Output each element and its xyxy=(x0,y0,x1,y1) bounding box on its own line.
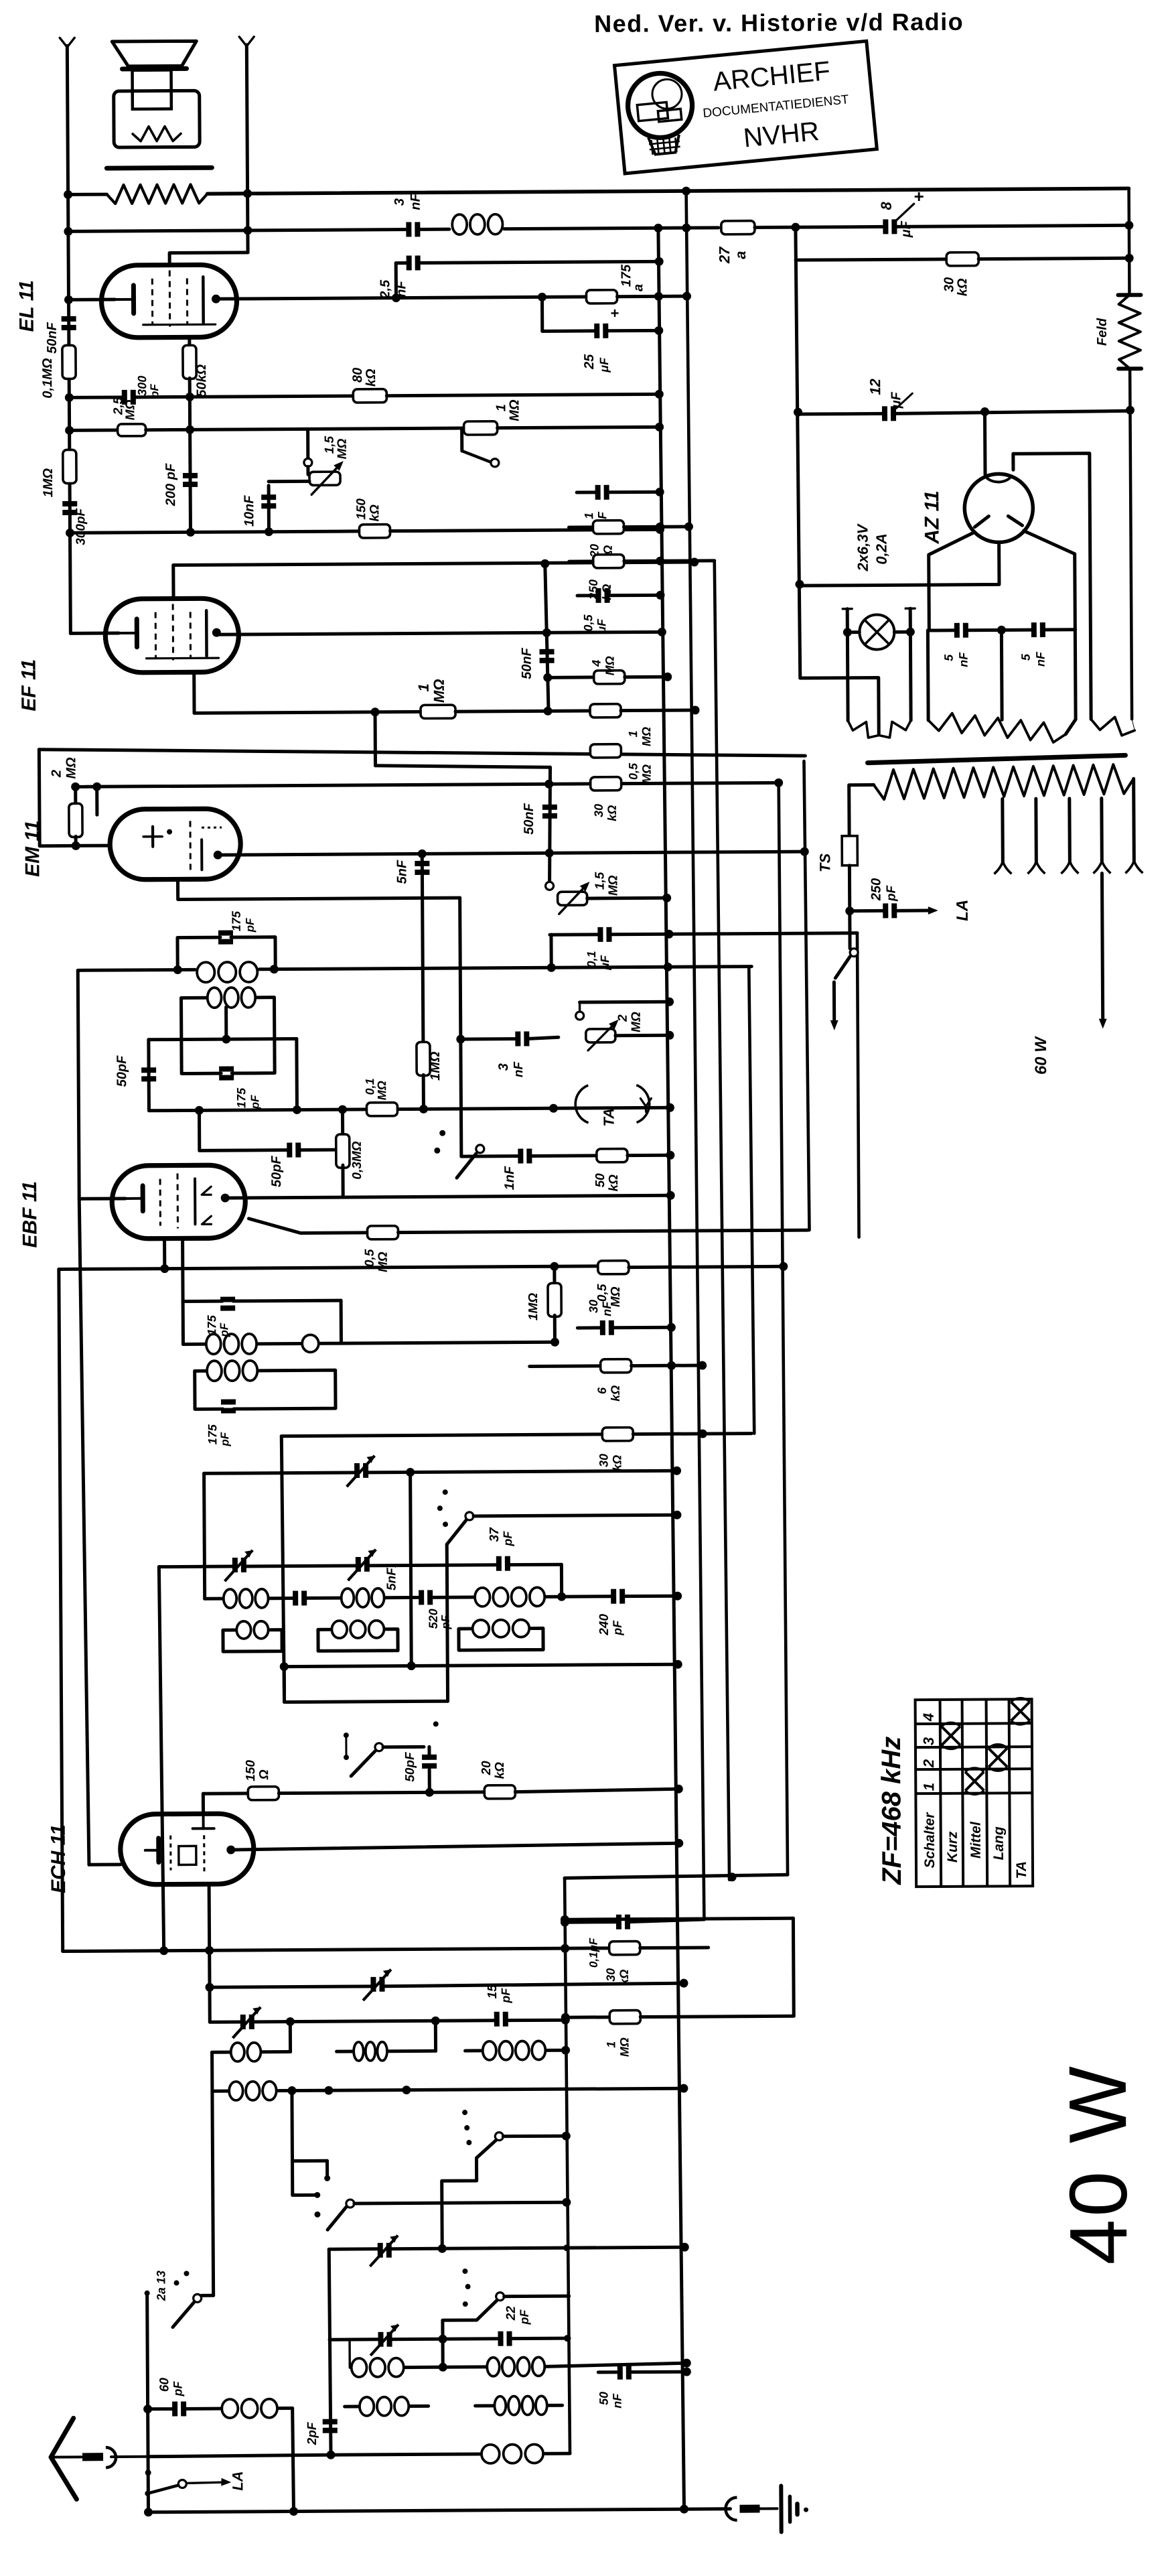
svg-text:250: 250 xyxy=(869,878,883,902)
wire x299 down xyxy=(198,1110,201,1150)
row y1890 xyxy=(59,1266,599,1270)
AZ11 right leg xyxy=(1024,531,1076,630)
right small winding xyxy=(1091,717,1134,736)
svg-text:MΩ: MΩ xyxy=(640,727,653,746)
svg-text:80: 80 xyxy=(350,368,365,383)
primary taps xyxy=(1001,799,1005,863)
IF1 center tap xyxy=(224,1007,228,1039)
svg-text:0,5: 0,5 xyxy=(626,762,640,780)
wire x128 xyxy=(79,1199,89,1865)
row y1444 xyxy=(78,969,195,970)
resistor 4M row y1011 xyxy=(548,675,594,679)
capacitor 5nF b xyxy=(1031,622,1037,637)
heater winding zigzag xyxy=(928,713,1066,744)
row y840 xyxy=(173,562,694,565)
svg-text:0,1: 0,1 xyxy=(585,951,598,967)
tube EBF11 envelope xyxy=(112,1165,246,1239)
resistor 1M row y3011 xyxy=(565,2015,609,2019)
ECH11 grid stub xyxy=(89,1863,121,1867)
svg-text:ZF=468 kHz: ZF=468 kHz xyxy=(877,1737,907,1885)
electrolytic 12uF xyxy=(882,406,887,421)
capacitor 5nF1 xyxy=(293,1590,298,1605)
svg-text:Ω: Ω xyxy=(257,1769,271,1780)
ECH11 bottom riser xyxy=(209,1884,210,2022)
svg-text:30: 30 xyxy=(592,804,605,817)
svg-text:EF 11: EF 11 xyxy=(18,659,40,711)
capacitor 175pF IF2b xyxy=(221,1400,236,1405)
row y1654 xyxy=(149,1107,670,1110)
svg-text:2: 2 xyxy=(50,770,64,778)
wire x310 xyxy=(212,2091,214,2295)
switch arm E xyxy=(496,2293,504,2301)
svg-text:kΩ: kΩ xyxy=(364,368,378,387)
svg-text:TA: TA xyxy=(600,1108,617,1127)
wire x419 down xyxy=(281,1436,284,1702)
bus vertical v7 xyxy=(857,933,859,1237)
svg-text:AZ 11: AZ 11 xyxy=(921,490,943,545)
capacitor 520pF xyxy=(419,1590,424,1605)
row y638 xyxy=(70,429,118,432)
wire x235 down xyxy=(159,1567,163,1951)
coil row y3532 xyxy=(348,2340,351,2368)
svg-text:pF: pF xyxy=(248,1095,261,1109)
capacitor 5nF a xyxy=(954,623,960,638)
row y2865 xyxy=(565,1918,793,1919)
svg-text:1: 1 xyxy=(582,513,595,519)
wire x291 tube bottom xyxy=(188,337,191,346)
rail y617 12uF xyxy=(798,412,883,416)
electrolytic 8uF xyxy=(883,219,888,234)
chassis jack xyxy=(725,2498,737,2520)
IF2 coil xyxy=(206,1334,221,1354)
resistor 6k row y2039 xyxy=(530,1364,601,1368)
svg-text:pF: pF xyxy=(148,384,161,399)
switch position table xyxy=(915,1699,1033,1887)
resistor 0.3M xyxy=(341,1109,344,1137)
capacitor 1nF xyxy=(518,1149,523,1164)
primary left lead xyxy=(849,785,874,836)
resistor 1M vertical x828 xyxy=(553,1266,556,1284)
svg-text:MΩ: MΩ xyxy=(336,439,350,460)
capacitor 50pF 3 xyxy=(422,1755,437,1760)
row y791 xyxy=(70,531,359,533)
row y3015 xyxy=(210,2020,242,2023)
row y3355 xyxy=(329,2247,379,2250)
speaker neck xyxy=(133,70,171,109)
capacitor 175pF IF1 xyxy=(218,931,233,936)
row y494 25uF xyxy=(542,329,596,332)
stamp logo bulb circle xyxy=(625,70,695,141)
EBF11 bottom pins xyxy=(163,1239,166,1269)
tube EL11 envelope xyxy=(101,265,237,338)
v7 top corner xyxy=(669,933,857,935)
output transformer box xyxy=(114,90,200,147)
5nF pair row xyxy=(928,628,956,632)
wire x427 xyxy=(293,2409,294,2512)
svg-text:15: 15 xyxy=(486,1984,500,1999)
capacitor 250pF LA arrow xyxy=(850,909,885,912)
svg-text:300: 300 xyxy=(135,376,149,396)
resistor 1M on x111 xyxy=(63,450,76,483)
svg-text:Lang: Lang xyxy=(991,1826,1007,1860)
capacitor 50pF xyxy=(141,1067,156,1073)
svg-text:1,5: 1,5 xyxy=(323,435,337,454)
svg-text:μF: μF xyxy=(598,955,611,971)
resistor 30k row y2141 xyxy=(281,1434,602,1436)
switch contacts A xyxy=(443,1489,448,1495)
svg-text:TA: TA xyxy=(1014,1861,1029,1879)
row y2335 trimmers xyxy=(159,1565,234,1569)
svg-text:pF: pF xyxy=(611,1620,624,1636)
svg-text:a: a xyxy=(732,251,749,259)
EF11 interior xyxy=(119,632,137,634)
svg-text:300pF: 300pF xyxy=(74,507,88,545)
svg-text:nF: nF xyxy=(512,1061,526,1078)
svg-text:1MΩ: 1MΩ xyxy=(428,1051,443,1081)
svg-text:8: 8 xyxy=(878,201,895,210)
resistor 0.1M xyxy=(366,1103,397,1116)
wire x838 long xyxy=(565,1878,570,2453)
svg-text:μF: μF xyxy=(597,357,611,373)
svg-text:LA: LA xyxy=(954,900,972,921)
wire x88 long xyxy=(59,1270,63,1952)
osc coil B xyxy=(342,1588,354,1607)
TA pickup xyxy=(575,1085,589,1123)
row y1114 EM grid xyxy=(39,745,805,760)
svg-text:MΩ: MΩ xyxy=(640,764,654,784)
svg-text:30: 30 xyxy=(597,1454,610,1467)
potentiometer 1.5M xyxy=(546,882,554,890)
svg-text:1: 1 xyxy=(920,1783,937,1791)
AZ11 left leg xyxy=(929,533,975,630)
svg-text:50nF: 50nF xyxy=(45,322,60,354)
tube EF11 envelope xyxy=(105,598,239,673)
wire x565 down xyxy=(374,712,377,766)
capacitor 0.1uF row y1395 xyxy=(549,935,553,967)
tube EM11 envelope xyxy=(110,809,241,880)
tube ECH11 envelope xyxy=(121,1814,254,1885)
tap with long arrow xyxy=(1100,799,1104,863)
resistor 1M b2 xyxy=(590,704,621,718)
svg-text:520: 520 xyxy=(427,1609,440,1629)
svg-text:1MΩ: 1MΩ xyxy=(41,468,56,497)
capacitor 1uF row y735 xyxy=(577,490,597,494)
svg-text:50nF: 50nF xyxy=(522,803,536,835)
wire vertical left x111 xyxy=(67,46,70,633)
svg-text:175: 175 xyxy=(205,1314,218,1335)
osc coil row y2383 xyxy=(205,1597,222,1601)
svg-text:5nF: 5nF xyxy=(394,860,409,884)
svg-text:1nF: 1nF xyxy=(502,1166,517,1190)
resistor 2M xyxy=(74,787,77,804)
capacitor 300pF on x111 xyxy=(62,501,77,506)
AZ11 cathode wire xyxy=(800,542,999,586)
svg-text:175: 175 xyxy=(206,1424,219,1444)
svg-text:pF: pF xyxy=(518,2309,531,2325)
wire x690 down xyxy=(460,898,461,1156)
resistor 2.5M xyxy=(118,424,146,436)
svg-text:Feld: Feld xyxy=(1095,318,1110,346)
ECH11 anode row y2758 xyxy=(231,1843,679,1850)
junction v2 on rail341 xyxy=(682,224,690,232)
svg-text:0,2A: 0,2A xyxy=(873,533,890,565)
svg-text:2: 2 xyxy=(920,1759,937,1768)
row y2869 0.1uF xyxy=(565,1920,617,1923)
svg-text:EM 11: EM 11 xyxy=(21,820,44,877)
power vertical x1197 xyxy=(796,227,800,678)
svg-text:μF: μF xyxy=(899,220,913,238)
EBF11 interior xyxy=(125,1197,143,1200)
svg-text:MΩ: MΩ xyxy=(617,2037,631,2057)
wire vertical speaker right x379 xyxy=(246,45,248,253)
svg-text:200 pF: 200 pF xyxy=(163,463,178,506)
svg-text:pF: pF xyxy=(244,918,257,933)
EM11 interior xyxy=(151,827,154,847)
svg-text:MΩ: MΩ xyxy=(123,399,137,420)
svg-text:nF: nF xyxy=(394,281,409,297)
svg-text:5nF₁: 5nF₁ xyxy=(384,1563,398,1590)
NVHR archive stamp xyxy=(614,41,877,174)
wire 2nF down to anode row xyxy=(394,263,398,298)
svg-text:MΩ: MΩ xyxy=(507,399,522,421)
wire x483 xyxy=(329,2249,331,2455)
IF2 box top xyxy=(183,1300,222,1303)
capacitor 240pF xyxy=(611,1589,616,1604)
wire AZ11 anode top xyxy=(983,412,987,475)
svg-text:175: 175 xyxy=(230,910,243,931)
wire x818 down xyxy=(540,297,544,331)
electrolytic 25uF xyxy=(594,324,599,338)
switch cluster E dots xyxy=(462,2268,467,2274)
svg-text:MΩ: MΩ xyxy=(606,875,620,896)
svg-text:MΩ: MΩ xyxy=(376,1251,390,1272)
row y1141 xyxy=(376,764,551,768)
svg-text:Mittel: Mittel xyxy=(968,1821,984,1858)
osc coil C xyxy=(475,1588,490,1607)
svg-text:175: 175 xyxy=(619,264,634,287)
mains lead arrow down xyxy=(832,982,836,1022)
svg-text:kΩ: kΩ xyxy=(607,1174,621,1192)
bus vertical v4 xyxy=(749,967,754,1434)
switch arm C xyxy=(495,2132,503,2141)
svg-text:nF: nF xyxy=(409,193,423,210)
svg-text:MΩ: MΩ xyxy=(375,1081,388,1100)
svg-text:30: 30 xyxy=(604,1968,617,1982)
EBF11 grid row xyxy=(79,1197,125,1200)
resistor 250k row y838 xyxy=(569,559,593,563)
row y2196 xyxy=(204,1473,356,1473)
EBF11 anode row y1785 xyxy=(225,1195,670,1198)
cap row y391 2nF xyxy=(396,261,408,265)
svg-text:2pF: 2pF xyxy=(305,2421,319,2445)
row y2807 xyxy=(565,1875,788,1878)
resistor 80k xyxy=(353,389,386,403)
ECH11 interior xyxy=(202,1814,205,1828)
svg-text:3: 3 xyxy=(392,198,407,206)
svg-text:μF: μF xyxy=(889,391,903,409)
svg-text:LA: LA xyxy=(229,2471,246,2490)
svg-text:240: 240 xyxy=(597,1614,611,1636)
row y1170 xyxy=(76,783,779,787)
LA switch xyxy=(145,2469,151,2476)
HT rail y286 main xyxy=(208,188,1129,194)
svg-text:1: 1 xyxy=(494,404,508,411)
vertical x445 xyxy=(295,1038,299,1109)
capacitor 175pF IF1b xyxy=(219,1067,234,1072)
svg-text:0,5: 0,5 xyxy=(581,614,595,631)
resistor 0.1M on x111 xyxy=(62,345,76,379)
rail y341 xyxy=(68,229,409,231)
EM11 top stub xyxy=(95,787,98,815)
capacitor 60pF xyxy=(172,2402,177,2417)
IF1 coil2 xyxy=(208,988,222,1008)
svg-text:+: + xyxy=(914,186,924,206)
svg-text:50nF: 50nF xyxy=(519,647,534,679)
svg-text:EBF 11: EBF 11 xyxy=(19,1181,42,1248)
svg-text:5: 5 xyxy=(1019,653,1033,661)
capacitor 50nF on x111 xyxy=(62,316,76,322)
V notch right xyxy=(239,37,254,46)
EM11 bottom wire xyxy=(177,878,459,899)
antenna symbol xyxy=(51,2418,77,2499)
antenna input row y3592 xyxy=(148,2407,174,2411)
EL11 interior xyxy=(115,298,133,301)
svg-text:3: 3 xyxy=(496,1063,511,1071)
resistor 30k on row1170 xyxy=(591,777,621,791)
svg-text:MΩ: MΩ xyxy=(603,656,617,675)
row y2485 xyxy=(285,1664,678,1666)
resistor 1M xyxy=(464,421,498,435)
row y2908 30k xyxy=(63,1948,609,1952)
resistor 50k xyxy=(183,345,196,379)
svg-text:4: 4 xyxy=(920,1713,937,1722)
osc secondary coil B xyxy=(332,1621,347,1638)
lamp stubs xyxy=(846,609,850,721)
speaker field zigzag on rail286 xyxy=(107,184,208,204)
antenna coils mid xyxy=(231,2043,244,2061)
tube AZ11 xyxy=(964,474,1033,543)
capacitor 3nF xyxy=(406,222,411,236)
EL11 grid top wire xyxy=(169,253,248,265)
bus vertical v3 xyxy=(715,561,729,1880)
switch arm A xyxy=(465,1512,473,1520)
svg-text:MΩ: MΩ xyxy=(64,757,78,779)
right vertical x1695 xyxy=(1127,188,1130,295)
resistor 30k agc xyxy=(609,1942,640,1955)
rail y390 xyxy=(796,259,946,260)
antenna coil xyxy=(222,2399,238,2418)
bus vertical v1 xyxy=(658,228,684,2509)
svg-text:2: 2 xyxy=(616,1014,630,1022)
svg-text:30: 30 xyxy=(942,277,956,292)
svg-text:a: a xyxy=(631,284,646,291)
switch arm B xyxy=(351,1751,375,1776)
row y2003 xyxy=(183,1343,204,1346)
svg-text:150: 150 xyxy=(244,1760,258,1781)
EL11 anode row y443 xyxy=(68,298,115,301)
primary winding zigzag xyxy=(874,764,1134,799)
resistor 175a xyxy=(586,290,617,303)
junction left rail341 xyxy=(64,227,72,236)
svg-text:40 W: 40 W xyxy=(1052,2063,1145,2265)
svg-text:kΩ: kΩ xyxy=(368,504,382,522)
lone coil row y3662 xyxy=(148,2455,331,2457)
svg-text:50pF: 50pF xyxy=(403,1751,417,1782)
svg-text:1: 1 xyxy=(604,2041,617,2048)
capacitor 0.5uF row y889 xyxy=(577,594,597,597)
pot arrow xyxy=(311,464,341,494)
svg-text:37: 37 xyxy=(488,1527,502,1542)
ground symbol xyxy=(779,2486,783,2532)
EF11 anode row y944 xyxy=(216,632,662,634)
row y2538 xyxy=(286,1701,448,1702)
switch cluster C dots xyxy=(462,2110,467,2115)
svg-text:60 W: 60 W xyxy=(1032,1036,1050,1075)
svg-text:0,1MΩ: 0,1MΩ xyxy=(40,358,55,399)
svg-text:Ned. Ver. v. Historie v/d Radi: Ned. Ver. v. Historie v/d Radio xyxy=(594,8,964,38)
svg-text:0,5: 0,5 xyxy=(363,1249,377,1267)
ground rail y3746 xyxy=(149,2509,731,2512)
svg-text:nF: nF xyxy=(957,652,970,667)
8uF + arrow xyxy=(895,204,914,221)
resistor 150a xyxy=(248,1787,279,1800)
switch arm D xyxy=(327,2206,347,2230)
resistor 27 Ohm xyxy=(721,221,755,234)
svg-text:30: 30 xyxy=(587,1300,600,1313)
svg-text:1: 1 xyxy=(626,731,640,738)
bus vertical v5 xyxy=(779,783,788,1875)
junction v1 top xyxy=(654,224,662,232)
switch cluster B dots xyxy=(344,1733,349,1738)
ECH11 grid riser xyxy=(202,1793,205,1814)
jog x836 xyxy=(560,1564,563,1597)
transformer core bar xyxy=(106,165,212,171)
svg-text:ECH 11: ECH 11 xyxy=(48,1824,70,1893)
V notch left antenna-top xyxy=(60,38,74,47)
capacitor 2nF xyxy=(407,255,412,270)
row y1061 xyxy=(194,711,421,713)
svg-text:60: 60 xyxy=(157,2378,171,2392)
svg-text:175: 175 xyxy=(234,1087,248,1108)
capacitor 22pF xyxy=(498,2331,503,2346)
wire x211 xyxy=(147,2293,149,2512)
svg-text:3: 3 xyxy=(920,1737,937,1745)
svg-text:2a 13: 2a 13 xyxy=(154,2270,167,2301)
svg-text:1MΩ: 1MΩ xyxy=(526,1293,540,1321)
capacitor 10nF xyxy=(269,480,309,483)
resistor 1M on x634 xyxy=(417,1042,430,1075)
svg-text:pF: pF xyxy=(501,1531,514,1547)
pilot lamp xyxy=(847,630,859,634)
resistor 1M b xyxy=(598,1261,629,1274)
svg-text:nF: nF xyxy=(1034,651,1047,667)
row y1725 1nF 50k xyxy=(461,1154,520,1158)
wire x611 xyxy=(411,1473,412,1666)
svg-text:pF: pF xyxy=(171,2380,184,2396)
svg-text:2x6,3V: 2x6,3V xyxy=(854,523,871,571)
resistor 0.5M diode xyxy=(367,1226,398,1239)
rectifier filament winding verticals xyxy=(926,630,930,720)
capacitor 50nF lower on x826 xyxy=(549,767,551,886)
wire x119 long xyxy=(78,970,79,1199)
bus vertical v6 xyxy=(804,761,809,1230)
svg-text:TS: TS xyxy=(816,853,833,872)
tone switch xyxy=(460,428,463,451)
svg-text:20: 20 xyxy=(480,1761,494,1776)
svg-text:pF: pF xyxy=(499,1988,512,2004)
svg-text:pF: pF xyxy=(218,1432,231,1446)
table X marks xyxy=(942,1726,960,1745)
